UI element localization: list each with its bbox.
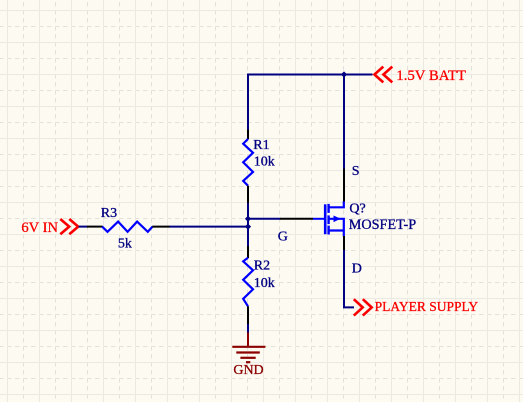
svg-text:R2: R2 xyxy=(254,258,270,273)
R1 designator label xyxy=(253,138,269,153)
svg-text:R3: R3 xyxy=(101,206,117,221)
svg-text:Q?: Q? xyxy=(349,202,365,217)
pin label G xyxy=(278,229,288,244)
R3 value label 5k xyxy=(118,237,132,252)
junction at top rail xyxy=(341,71,347,77)
wire from 6V IN port to R3 xyxy=(79,226,89,228)
wire top rail from R1 top to 1.5V BATT port xyxy=(248,74,373,76)
svg-text:5k: 5k xyxy=(118,237,132,252)
bulk connection with arrow xyxy=(329,219,344,231)
wire from junction down to R2 xyxy=(247,227,249,247)
transistor Q? MOSFET-P xyxy=(280,168,344,250)
pin label S xyxy=(352,164,360,179)
svg-text:S: S xyxy=(352,164,360,179)
junction at gate wire node xyxy=(245,216,251,222)
channel segment bottom xyxy=(327,226,329,235)
drain stub xyxy=(343,231,345,237)
source pin S xyxy=(343,168,345,201)
Q? designator label xyxy=(349,202,365,217)
R1 value label 10k xyxy=(254,154,275,169)
pin label D xyxy=(352,262,362,277)
wire from R2 to GND xyxy=(247,324,249,333)
R3 designator label xyxy=(101,206,117,221)
port PLAYER SUPPLY xyxy=(354,299,479,316)
R2 value label 10k xyxy=(254,276,275,291)
svg-text:PLAYER SUPPLY: PLAYER SUPPLY xyxy=(375,299,479,314)
svg-text:G: G xyxy=(278,229,288,244)
gate bar xyxy=(324,204,327,234)
channel segment middle xyxy=(327,215,329,224)
wire from Q drain down and right to PLAYER SUPPLY port xyxy=(344,250,354,307)
ground GND power symbol xyxy=(232,333,265,379)
drain pin D xyxy=(343,236,345,251)
wire from top rail junction down to Q source xyxy=(343,75,345,169)
gate pin xyxy=(280,218,313,220)
channel segment top xyxy=(327,204,329,213)
R2 designator label xyxy=(254,258,270,273)
port 1.5V BATT xyxy=(374,67,466,84)
port 6V IN xyxy=(21,219,78,236)
svg-text:GND: GND xyxy=(233,363,263,378)
wire gate from junction to Q1 gate pin xyxy=(248,218,281,220)
junction at input wire node xyxy=(245,224,251,230)
resistor R1 xyxy=(243,130,253,204)
svg-text:10k: 10k xyxy=(254,154,275,169)
svg-text:10k: 10k xyxy=(254,276,275,291)
resistor R3 xyxy=(87,222,170,232)
source connection xyxy=(329,201,344,207)
svg-text:MOSFET-P: MOSFET-P xyxy=(349,217,416,233)
svg-text:6V IN: 6V IN xyxy=(21,220,58,236)
svg-text:R1: R1 xyxy=(253,138,269,153)
wire from R3 to junction xyxy=(170,226,250,228)
svg-text:1.5V BATT: 1.5V BATT xyxy=(396,68,466,84)
resistor R2 xyxy=(243,246,253,325)
MOSFET-P comment label xyxy=(349,217,416,233)
wire vertical from top rail down to R1 xyxy=(247,74,249,131)
svg-text:D: D xyxy=(352,262,362,277)
wire from R1 bottom to gate junction xyxy=(247,203,249,247)
